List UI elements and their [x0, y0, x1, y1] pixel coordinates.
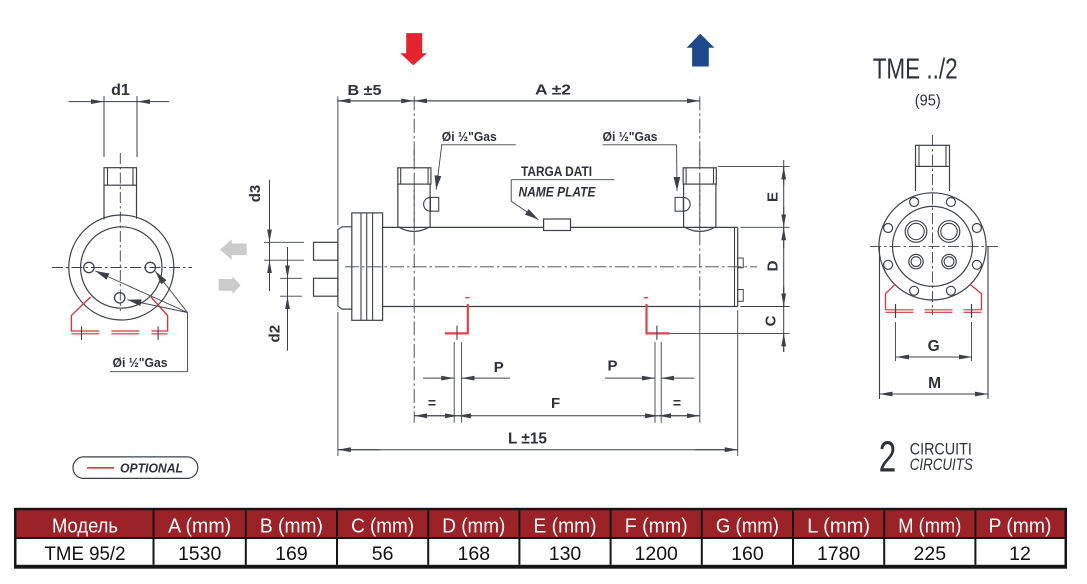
svg-text:L (mm): L (mm): [807, 515, 870, 538]
svg-text:D: D: [764, 260, 781, 271]
svg-text:1530: 1530: [178, 543, 222, 565]
svg-text:TME 95/2: TME 95/2: [45, 543, 126, 565]
svg-text:D (mm): D (mm): [442, 515, 505, 538]
svg-text:169: 169: [275, 543, 308, 565]
svg-text:2: 2: [879, 433, 897, 482]
svg-text:225: 225: [914, 543, 947, 565]
svg-text:d1: d1: [111, 82, 130, 99]
svg-text:CIRCUITS: CIRCUITS: [910, 455, 974, 474]
svg-text:=: =: [428, 395, 436, 411]
svg-text:56: 56: [372, 543, 394, 565]
svg-text:G (mm): G (mm): [716, 515, 779, 538]
svg-text:d2: d2: [266, 325, 283, 343]
svg-text:F: F: [551, 395, 560, 412]
svg-text:160: 160: [731, 543, 764, 565]
svg-text:Øi ½"Gas: Øi ½"Gas: [113, 355, 168, 370]
svg-text:TARGA DATI: TARGA DATI: [521, 163, 592, 179]
svg-text:M: M: [928, 375, 941, 392]
svg-text:NAME PLATE: NAME PLATE: [519, 183, 597, 199]
svg-text:E: E: [764, 192, 781, 202]
svg-text:130: 130: [549, 543, 582, 565]
svg-text:P: P: [494, 359, 504, 376]
svg-text:1780: 1780: [817, 543, 861, 565]
svg-text:M (mm): M (mm): [898, 515, 961, 538]
svg-text:Модель: Модель: [52, 515, 118, 538]
svg-text:E (mm): E (mm): [534, 515, 597, 538]
svg-text:168: 168: [458, 543, 491, 565]
svg-text:Øi ½"Gas: Øi ½"Gas: [603, 129, 658, 144]
svg-text:A (mm): A (mm): [168, 515, 231, 538]
svg-text:12: 12: [1009, 543, 1031, 565]
svg-text:Øi ½"Gas: Øi ½"Gas: [442, 129, 497, 144]
svg-text:C: C: [762, 315, 779, 326]
svg-text:d3: d3: [247, 185, 264, 203]
svg-text:(95): (95): [915, 93, 941, 110]
svg-text:L ±15: L ±15: [508, 431, 547, 448]
svg-text:P (mm): P (mm): [988, 515, 1051, 538]
svg-text:G: G: [928, 338, 940, 355]
svg-text:F (mm): F (mm): [625, 515, 688, 538]
svg-text:OPTIONAL: OPTIONAL: [120, 461, 183, 475]
svg-text:C (mm): C (mm): [351, 515, 414, 538]
svg-text:1200: 1200: [635, 543, 679, 565]
svg-text:B (mm): B (mm): [260, 515, 323, 538]
svg-text:P: P: [607, 358, 617, 375]
svg-text:=: =: [673, 395, 681, 411]
svg-text:A ±2: A ±2: [535, 82, 571, 99]
svg-text:B ±5: B ±5: [348, 82, 382, 99]
svg-text:TME ../2: TME ../2: [873, 54, 958, 86]
